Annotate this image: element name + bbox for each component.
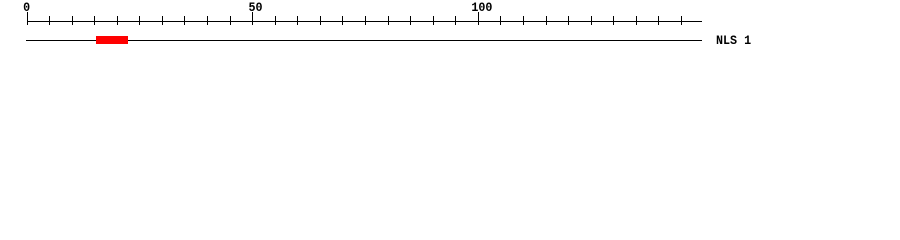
ruler minor ticks (every 5 units): [50, 16, 682, 25]
svg-text:0: 0: [23, 0, 30, 15]
svg-text:100: 100: [471, 0, 492, 15]
svg-text:NLS 1: NLS 1: [716, 33, 751, 48]
ruler major tick 100: [478, 12, 480, 25]
feature track line: [26, 40, 702, 42]
ruler major tick 0: [27, 12, 29, 25]
svg-text:50: 50: [248, 0, 262, 15]
background: [0, 0, 900, 58]
ruler axis line: [27, 21, 702, 23]
ruler major tick 50: [252, 12, 254, 25]
feature box NLS 1 (red): [96, 36, 128, 44]
